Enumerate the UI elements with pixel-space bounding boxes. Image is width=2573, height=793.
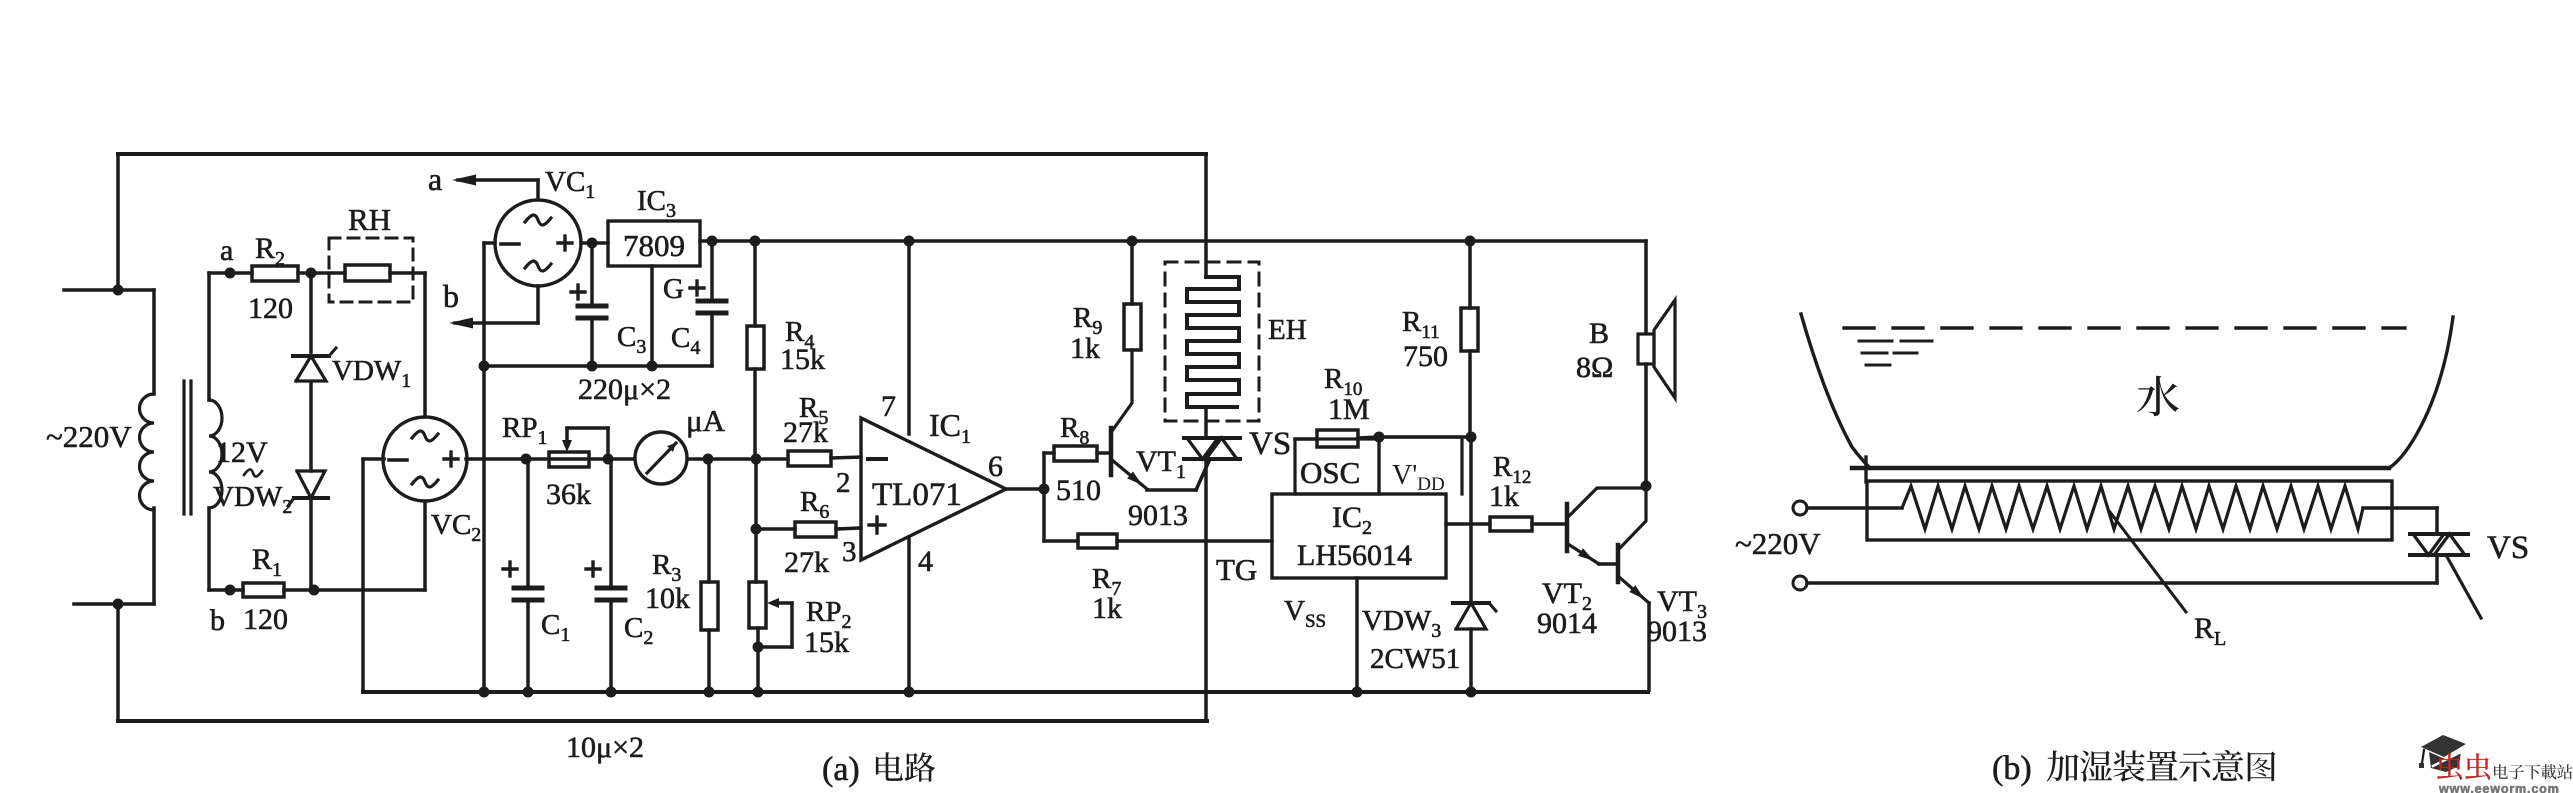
resistor R10 <box>1295 437 1317 441</box>
node: C4 top <box>707 236 718 247</box>
svg-text:6: 6 <box>988 450 1003 483</box>
svg-text:VS: VS <box>1249 426 1291 462</box>
node: output junction <box>1039 484 1050 495</box>
wire: bottom AC neutral rail <box>118 719 1207 723</box>
label water <box>2137 376 2179 417</box>
svg-text:VS: VS <box>2487 530 2529 566</box>
node a <box>225 268 236 279</box>
terminal circle top <box>1793 501 1807 515</box>
water basin left wall <box>1801 314 1870 468</box>
wire: primary bottom lead <box>152 508 156 604</box>
transistor VT3 <box>1616 545 1621 582</box>
wire: C3 C4 ground link <box>484 364 712 368</box>
resistor R8 <box>1042 453 1046 489</box>
wire: VC1 plus to 7809 input <box>581 241 608 245</box>
svg-text:μA: μA <box>686 403 726 438</box>
speaker B <box>1638 334 1654 364</box>
wire: secondary bottom lead to node b <box>207 508 211 590</box>
node: C2 ground <box>606 687 617 698</box>
svg-text:15k: 15k <box>780 343 825 376</box>
svg-text:b: b <box>210 604 225 637</box>
svg-text:OSC: OSC <box>1300 455 1360 490</box>
heater housing box <box>1867 481 2392 540</box>
wire: VDD to R11 branch <box>1379 435 1471 439</box>
svg-text:9014: 9014 <box>1537 607 1597 640</box>
heater element RL zigzag <box>1902 486 2363 529</box>
water basin bottom <box>1852 466 2389 471</box>
node: R9 top <box>1127 236 1138 247</box>
svg-text:EH: EH <box>1268 314 1307 346</box>
svg-text:~220V: ~220V <box>46 419 132 454</box>
heating element EH meander <box>1187 277 1239 407</box>
wire: AC input stub a-side <box>64 288 154 292</box>
transistor VT2 <box>1565 504 1570 551</box>
wire: primary top lead <box>152 290 156 394</box>
svg-text:8Ω: 8Ω <box>1576 351 1613 384</box>
resistor R7 <box>1042 489 1046 541</box>
svg-text:G: G <box>663 273 684 305</box>
logo graduation cap <box>2421 735 2466 757</box>
wire: VC2 plus to opamp input net <box>466 457 788 461</box>
wire: left vertical to bottom rail <box>116 604 120 721</box>
node b <box>225 585 236 596</box>
node: junction top-left <box>113 285 124 296</box>
resistor R9 <box>1124 304 1141 350</box>
transistor VT1 <box>1109 428 1114 475</box>
svg-text:1k: 1k <box>1489 480 1519 513</box>
triac VS part b <box>2410 532 2468 536</box>
svg-text:VDW1: VDW1 <box>332 355 411 392</box>
wire: speaker branch from +9V rail <box>1644 241 1648 334</box>
svg-text:2CW51: 2CW51 <box>1370 643 1460 675</box>
potentiometer RP2 <box>749 582 766 628</box>
svg-text:10k: 10k <box>645 582 690 615</box>
node: VSS ground <box>1352 687 1363 698</box>
svg-text:(b): (b) <box>1992 750 2032 787</box>
wire: bottom wire to triac <box>1807 581 2437 585</box>
svg-text:www.eeworm.com: www.eeworm.com <box>2438 782 2560 793</box>
IC2 LH56014 box <box>1272 494 1446 578</box>
zener VDW1 <box>309 273 313 352</box>
bridge rectifier VC1 <box>536 180 540 200</box>
node: R3 ground <box>704 687 715 698</box>
svg-text:LH56014: LH56014 <box>1297 539 1412 572</box>
svg-text:9013: 9013 <box>1128 499 1188 532</box>
node: R4/R6 tap on input net <box>751 454 762 465</box>
resistor R12 <box>1446 522 1490 526</box>
node: collector junction <box>1641 481 1652 492</box>
svg-text:120: 120 <box>243 603 288 636</box>
node: RP1 wiper junction <box>603 454 614 465</box>
wire: R7 to IC2 TG pin <box>1117 539 1272 543</box>
node: C3C4 ground tie <box>479 361 490 372</box>
svg-text:a: a <box>428 161 442 197</box>
water surface dashed line <box>1844 326 2405 329</box>
svg-text:TL071: TL071 <box>872 477 962 513</box>
node: C1 ground <box>523 687 534 698</box>
RH dashed enclosure <box>329 238 413 302</box>
OSC box <box>1295 439 1379 494</box>
triac gate lead <box>2446 555 2481 618</box>
svg-text:3: 3 <box>842 536 857 568</box>
logo site name <box>2494 764 2508 779</box>
svg-text:2: 2 <box>836 467 851 499</box>
node: R11 bottom junction <box>1466 432 1477 443</box>
potentiometer RP1 <box>549 452 589 467</box>
wire: VC1 AC bottom to b arrow <box>536 286 540 323</box>
wire: 7809 ground pin G <box>650 266 654 366</box>
node: R2 right junction <box>306 268 317 279</box>
node: VDW3 ground <box>1466 687 1477 698</box>
svg-text:7809: 7809 <box>623 228 685 263</box>
resistor R6 <box>756 527 795 531</box>
transformer T primary winding <box>140 394 155 510</box>
node: opamp pin7 tap <box>904 236 915 247</box>
svg-text:a: a <box>220 234 233 267</box>
terminal circle bottom <box>1793 576 1807 590</box>
svg-text:9013: 9013 <box>1647 615 1707 648</box>
pointer line to RL <box>2110 512 2186 612</box>
wire: R1 to VC2 AC bottom <box>314 588 425 592</box>
capacitor C3 <box>590 243 594 306</box>
svg-text:TG: TG <box>1216 552 1257 587</box>
wire: left vertical from top rail to primary tap <box>116 154 120 291</box>
wire: top AC rail <box>118 152 1206 156</box>
svg-text:4: 4 <box>918 545 933 578</box>
wire: RH to VC2 AC top <box>390 271 425 275</box>
wire: VC2 minus to ground rail <box>363 457 384 461</box>
svg-text:1M: 1M <box>1328 393 1370 426</box>
wire: divider down to R6 tap <box>754 459 758 582</box>
resistor R2 <box>231 271 252 275</box>
svg-text:B: B <box>1589 317 1609 350</box>
resistor R11 <box>1468 241 1472 308</box>
svg-text:120: 120 <box>248 292 293 325</box>
svg-text:12V: 12V <box>216 436 268 469</box>
resistor R4 <box>753 241 757 326</box>
svg-text:36k: 36k <box>546 478 591 511</box>
VDD box <box>1379 437 1462 494</box>
resistor R5 <box>788 451 831 466</box>
svg-text:27k: 27k <box>783 416 828 449</box>
node: C3 tap <box>587 238 598 249</box>
svg-text:VDW2: VDW2 <box>213 481 292 518</box>
logo chongchong red text <box>2437 753 2490 779</box>
svg-text:510: 510 <box>1056 474 1101 507</box>
svg-text:220μ×2: 220μ×2 <box>578 373 671 406</box>
wire: AC input stub b-side <box>74 602 154 606</box>
svg-text:15k: 15k <box>804 626 849 659</box>
node: VC1 minus ground <box>479 687 490 698</box>
node: R1 right junction <box>309 585 320 596</box>
label pin4 and wire <box>907 537 911 692</box>
svg-text:VDW3: VDW3 <box>1362 605 1441 642</box>
wire: R3 branch <box>707 459 711 582</box>
water ripple marks <box>1859 340 1892 343</box>
svg-text:10μ×2: 10μ×2 <box>566 731 644 764</box>
meter uA <box>635 432 687 484</box>
voltage regulator IC3 7809 <box>608 221 700 266</box>
water basin corner tick <box>1864 457 1867 482</box>
svg-text:1k: 1k <box>1070 332 1100 365</box>
node: C1 tap <box>521 454 532 465</box>
wire: R2 to RH <box>311 271 345 275</box>
node: R6 tap <box>751 524 762 535</box>
wire: IC2 VSS pin to ground <box>1355 578 1359 692</box>
node: RP2 ground <box>753 687 764 698</box>
wire: EH exit to triac <box>1204 407 1208 438</box>
zener VDW3 <box>1469 437 1473 603</box>
capacitor C1 <box>526 459 530 588</box>
node: R11 top <box>1465 236 1476 247</box>
svg-text:(a): (a) <box>822 751 860 788</box>
wire: secondary top lead to node a <box>207 273 211 400</box>
wire: triac MT2 to neutral rail <box>1204 459 1208 721</box>
svg-text:27k: 27k <box>784 546 829 579</box>
triac VS <box>1184 436 1240 440</box>
svg-text:1k: 1k <box>1092 592 1122 625</box>
node: R10 right <box>1374 432 1385 443</box>
zener VDW2 <box>297 471 325 498</box>
transformer T secondary winding <box>209 400 222 508</box>
label pin7 and wire <box>907 241 911 434</box>
water basin right wall <box>2389 317 2453 468</box>
svg-text:~220V: ~220V <box>1735 526 1821 561</box>
op-amp IC1 TL071 <box>861 418 1006 560</box>
resistor R3 <box>701 582 718 630</box>
bridge rectifier VC2 <box>383 417 467 501</box>
wire: terminal to heater <box>1807 506 1902 510</box>
wire: opamp output <box>1006 487 1044 491</box>
capacitor C2 <box>609 459 613 588</box>
svg-text:RH: RH <box>348 202 391 237</box>
humidity sensor RH resistor <box>345 265 390 281</box>
wire: heater to triac VS <box>2363 506 2437 510</box>
resistor R1 <box>230 588 243 592</box>
wire: +9V supply rail <box>700 239 1646 243</box>
node: meter output junction <box>703 454 714 465</box>
wire: main ground rail <box>363 690 1648 694</box>
EH dashed enclosure <box>1165 262 1259 421</box>
svg-text:7: 7 <box>881 390 896 423</box>
svg-text:750: 750 <box>1403 340 1448 373</box>
node: R4 top <box>750 236 761 247</box>
wire: EH feed from top rail <box>1204 154 1208 277</box>
wire: VC1 minus down to ground <box>484 241 495 245</box>
node: junction bottom-left <box>113 599 124 610</box>
capacitor C4 <box>710 243 714 301</box>
transformer T core <box>182 381 185 514</box>
node: pin4 ground <box>904 687 915 698</box>
svg-text:b: b <box>443 278 459 314</box>
